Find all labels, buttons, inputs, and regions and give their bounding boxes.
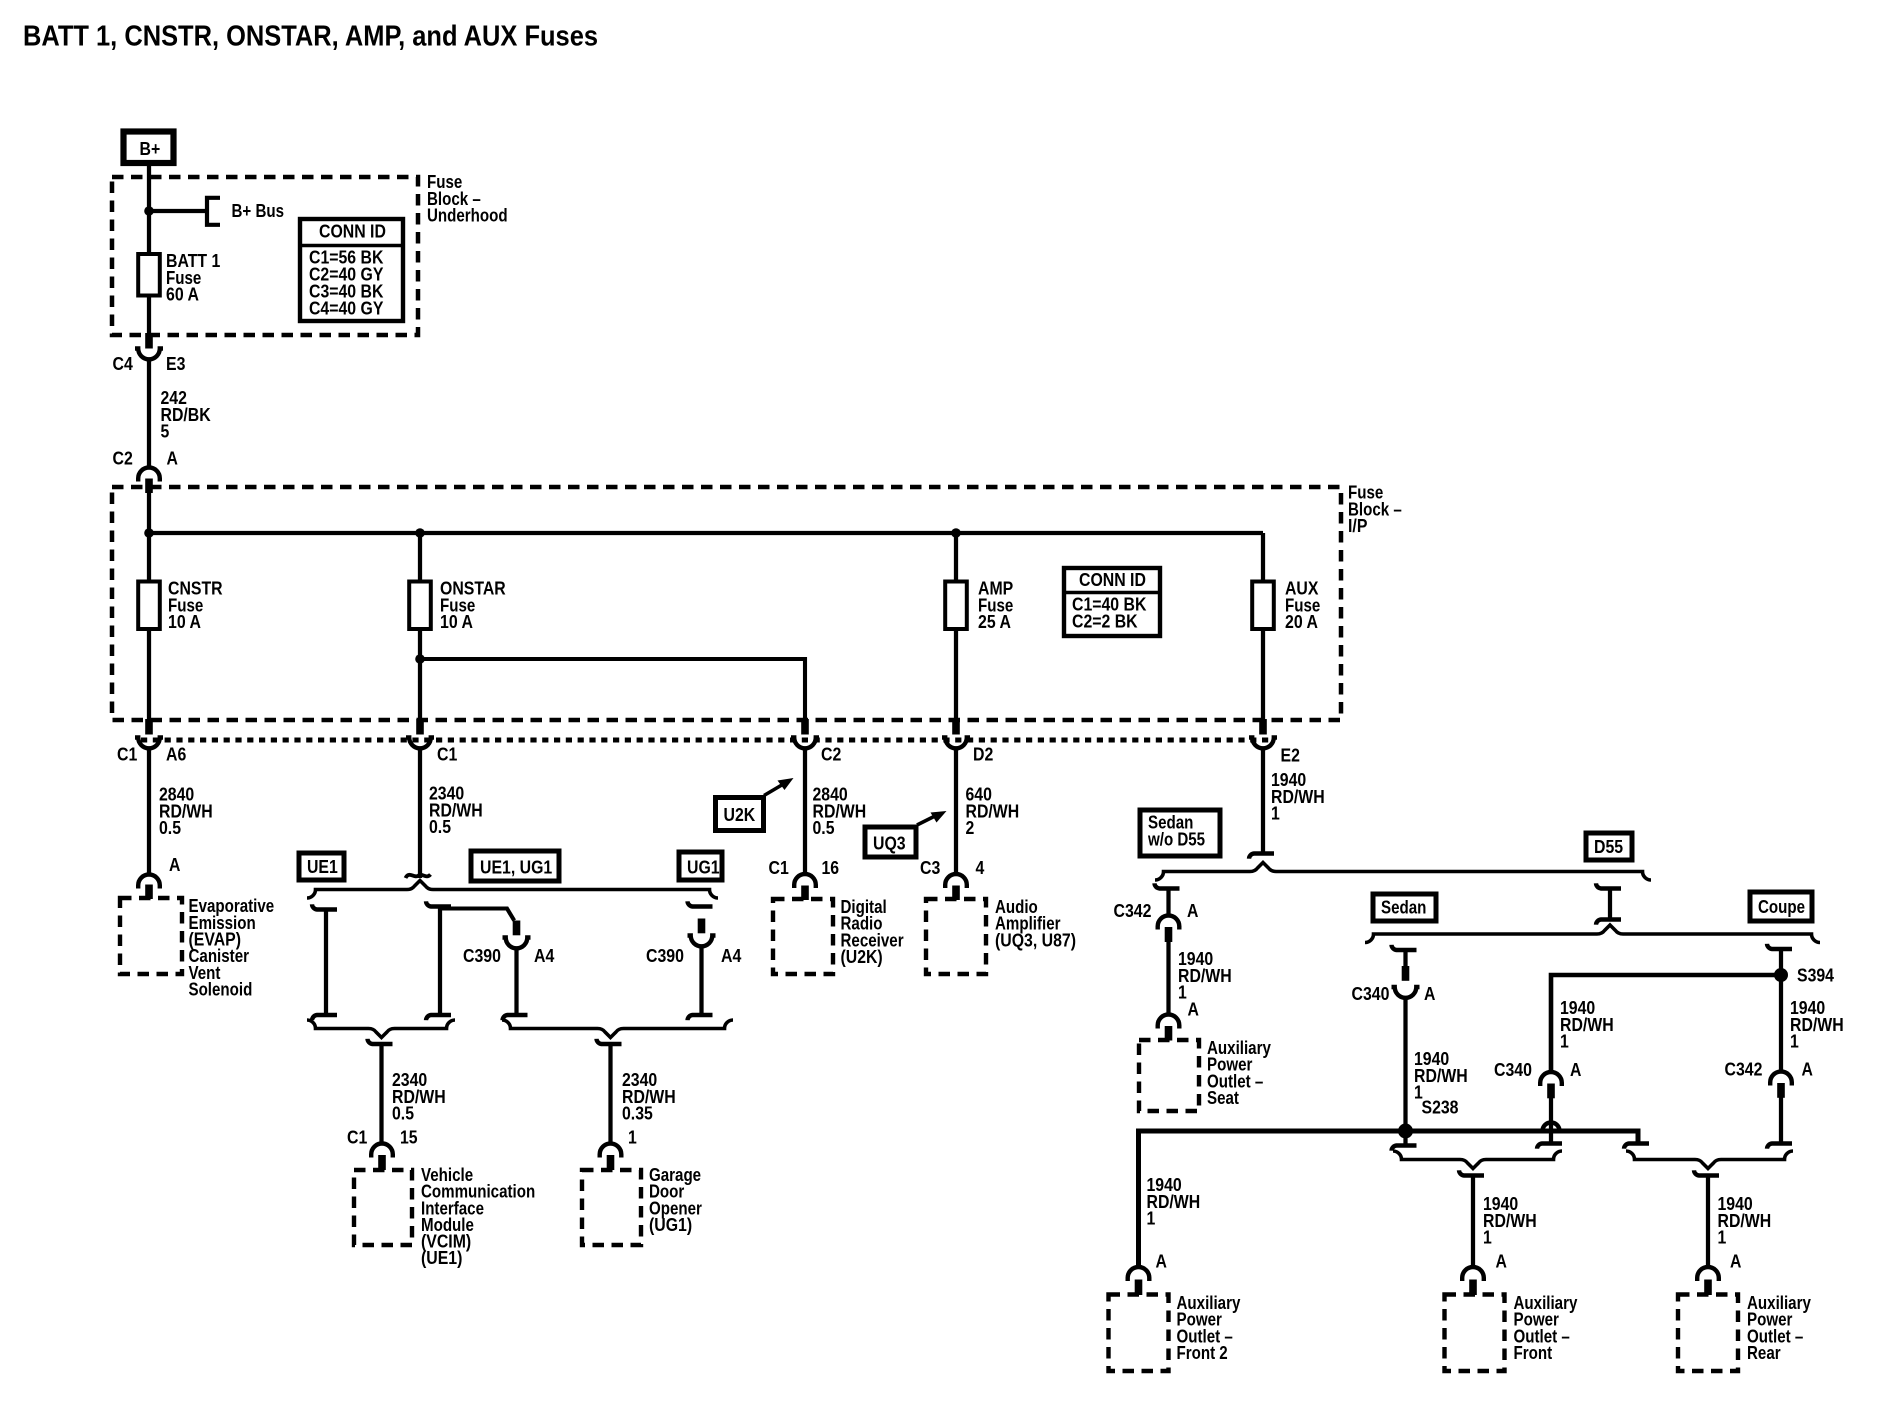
auxiliary power outlet - front 2 (dashed box): [1109, 1295, 1169, 1372]
svg-text:25 A: 25 A: [978, 612, 1011, 632]
wire C340 across S238 bus: [1549, 1098, 1553, 1144]
svg-text:A: A: [1424, 984, 1435, 1004]
fuse BATT 1 60 A: [138, 254, 160, 296]
svg-text:16: 16: [822, 858, 840, 878]
option brace UE1/UG1 split: [307, 881, 718, 899]
label box UG1: [679, 852, 722, 880]
bus wire in I/P block: [149, 531, 1263, 535]
label box U2K with arrow: [716, 798, 764, 831]
svg-text:CONN ID: CONN ID: [1079, 570, 1146, 590]
node S394: [1774, 968, 1788, 982]
wire 640 RD/WH 2 to amplifier: [954, 748, 958, 874]
node bus-AMP: [951, 528, 961, 538]
svg-text:U2K: U2K: [724, 805, 756, 825]
auxiliary power outlet - front (dashed box): [1445, 1295, 1505, 1372]
wire 1940 RD/WH 1 from AUX exit: [1261, 748, 1265, 854]
svg-text:C390: C390: [463, 946, 501, 966]
connector C340 A (sedan): [1402, 966, 1410, 981]
wire ONSTAR fuse to exit C1: [418, 629, 422, 721]
svg-text:C1: C1: [347, 1128, 367, 1148]
B+ battery terminal: [124, 132, 174, 164]
svg-text:C1: C1: [117, 745, 137, 765]
svg-text:UG1: UG1: [687, 858, 720, 878]
svg-text:E2: E2: [1281, 746, 1300, 766]
wire 1940 RD/WH 1 to seat outlet: [1166, 942, 1170, 1015]
terminal bus end: [1624, 1144, 1649, 1149]
svg-text:Coupe: Coupe: [1758, 897, 1805, 917]
wire 2340 RD/WH 0.35 to GDO: [597, 1039, 622, 1044]
svg-text:60 A: 60 A: [166, 285, 199, 305]
option drop sedan: [1392, 945, 1417, 950]
svg-text:C2: C2: [113, 449, 133, 469]
brace gather to front outlet: [1393, 1151, 1562, 1169]
wire bus to ONSTAR fuse: [418, 533, 422, 582]
label box Sedan w/o D55: [1140, 810, 1220, 856]
svg-text:1: 1: [1483, 1228, 1492, 1248]
label box Coupe: [1750, 892, 1812, 921]
splice tilde at option brace: [406, 875, 431, 879]
option brace sedan w/o D55 vs D55: [1155, 863, 1651, 881]
svg-text:C4=40 GY: C4=40 GY: [309, 298, 383, 318]
label box UE1: [299, 853, 344, 880]
svg-text:20 A: 20 A: [1285, 612, 1318, 632]
node S238: [1398, 1124, 1413, 1139]
wire 2340 RD/WH 0.5 to VCIM: [368, 1039, 393, 1044]
brace gather to rear outlet: [1626, 1151, 1793, 1169]
svg-text:(UE1): (UE1): [421, 1248, 462, 1268]
svg-text:C390: C390: [646, 946, 684, 966]
wire 1940 RD/WH 1 coupe down: [1779, 975, 1783, 1072]
svg-text:A4: A4: [534, 946, 554, 966]
svg-text:C3: C3: [920, 858, 940, 878]
svg-text:Underhood: Underhood: [427, 206, 508, 226]
vehicle communication interface module (dashed box): [354, 1170, 412, 1245]
wire 1940 RD/WH 1 sedan to S238: [1403, 997, 1407, 1131]
connector C390 A4 (UE1,UG1): [513, 921, 521, 936]
node bus-ONSTAR: [415, 528, 425, 538]
svg-text:S394: S394: [1797, 966, 1834, 986]
svg-text:B+: B+: [140, 139, 161, 159]
svg-text:A: A: [1570, 1060, 1581, 1080]
svg-text:0.5: 0.5: [429, 817, 451, 837]
option drop UE1 direct: [312, 904, 337, 909]
wire 2840 RD/WH 0.5 to EVAP: [147, 748, 151, 875]
svg-text:C340: C340: [1494, 1060, 1532, 1080]
svg-text:15: 15: [400, 1128, 418, 1148]
svg-text:C340: C340: [1352, 984, 1390, 1004]
wire 242 RD/BK 5: [147, 359, 151, 468]
svg-text:A: A: [1802, 1060, 1813, 1080]
label box D55: [1586, 833, 1632, 860]
wire CNSTR fuse to exit C1: [147, 629, 151, 721]
svg-text:1: 1: [1271, 804, 1280, 824]
audio amplifier (dashed box): [926, 899, 986, 974]
svg-text:Rear: Rear: [1747, 1343, 1781, 1363]
svg-text:Seat: Seat: [1207, 1088, 1239, 1108]
fuse ONSTAR 10 A: [409, 582, 431, 630]
S238 bus wire: [1139, 1131, 1639, 1268]
svg-text:Sedan: Sedan: [1381, 898, 1426, 918]
svg-text:1: 1: [1147, 1209, 1156, 1229]
wire BATT1 fuse to C4: [147, 296, 151, 338]
option drop UE1+UG1: [426, 901, 451, 906]
svg-text:0.5: 0.5: [392, 1104, 414, 1124]
svg-text:A6: A6: [166, 745, 186, 765]
terminal coupe crossover: [1537, 1144, 1562, 1149]
svg-text:1: 1: [1790, 1032, 1799, 1052]
wire into bus: [147, 487, 151, 582]
svg-text:A: A: [1496, 1252, 1507, 1272]
svg-text:C342: C342: [1114, 901, 1152, 921]
node B+ bus junction: [144, 206, 154, 216]
svg-text:5: 5: [161, 422, 170, 442]
svg-text:0.5: 0.5: [159, 818, 181, 838]
svg-text:C2=2 BK: C2=2 BK: [1072, 612, 1138, 632]
wire C342 to rear brace: [1779, 1098, 1783, 1144]
label box UE1, UG1: [471, 851, 559, 881]
exit connector C1/A6: [145, 719, 153, 735]
svg-text:BATT 1, CNSTR, ONSTAR, AMP, an: BATT 1, CNSTR, ONSTAR, AMP, and AUX Fuse…: [23, 21, 598, 53]
svg-text:C1: C1: [437, 745, 457, 765]
svg-text:CONN ID: CONN ID: [319, 222, 386, 242]
terminal rear drop: [1767, 1144, 1792, 1149]
svg-text:(UQ3, U87): (UQ3, U87): [995, 930, 1076, 950]
CONN ID table I/P: [1064, 568, 1160, 636]
wire jog ONSTAR to exit C2: [420, 659, 805, 721]
connector C4/E3 pin: [145, 333, 153, 349]
CONN ID table underhood: [300, 219, 403, 321]
auxiliary power outlet - seat (dashed box): [1139, 1040, 1199, 1111]
svg-text:10 A: 10 A: [168, 612, 201, 632]
digital radio receiver (dashed box): [773, 899, 833, 974]
wire to B+ bus: [149, 209, 206, 213]
svg-text:2: 2: [966, 818, 975, 838]
option drop sedan w/o D55: [1155, 883, 1180, 888]
connector row dotted line: [141, 738, 1274, 743]
svg-text:D2: D2: [973, 745, 993, 765]
wire 1940 RD/WH 1 to front outlet: [1459, 1170, 1484, 1175]
label box UQ3 with arrow: [865, 827, 916, 857]
node ONSTAR jog: [415, 654, 425, 664]
exit connector D2: [952, 719, 960, 735]
svg-text:UE1: UE1: [307, 857, 338, 877]
svg-text:C1: C1: [769, 858, 789, 878]
svg-text:B+ Bus: B+ Bus: [232, 201, 285, 221]
wire S394 to C340 branch: [1551, 975, 1781, 1072]
wire jog to C390: [440, 909, 514, 921]
auxiliary power outlet - rear (dashed box): [1678, 1295, 1738, 1372]
wire 2840 RD/WH 0.5 to radio: [803, 748, 807, 874]
svg-text:0.35: 0.35: [622, 1104, 653, 1124]
exit connector E2: [1259, 719, 1267, 735]
svg-text:A: A: [1156, 1252, 1167, 1272]
svg-text:10 A: 10 A: [440, 612, 473, 632]
svg-text:C342: C342: [1725, 1060, 1763, 1080]
svg-text:UQ3: UQ3: [873, 834, 906, 854]
svg-text:w/o D55: w/o D55: [1147, 830, 1205, 850]
svg-text:1: 1: [628, 1128, 637, 1148]
wire bus to AMP fuse: [954, 533, 958, 582]
svg-text:4: 4: [976, 858, 985, 878]
exit connector C1 (ONSTAR): [416, 719, 424, 735]
svg-text:Front: Front: [1514, 1343, 1553, 1363]
brace gather to garage door opener: [502, 1020, 733, 1038]
svg-text:A: A: [169, 855, 180, 875]
svg-text:A: A: [1730, 1252, 1741, 1272]
svg-text:(U2K): (U2K): [841, 947, 883, 967]
svg-text:A: A: [1187, 901, 1198, 921]
svg-text:Solenoid: Solenoid: [189, 980, 253, 1000]
EVAP canister vent solenoid (dashed box): [120, 898, 182, 974]
wire 1940 RD/WH 1 to rear outlet: [1694, 1170, 1719, 1175]
fuse block I/P (dashed box): [112, 487, 1341, 720]
fuse block underhood (dashed box): [112, 177, 418, 335]
svg-text:C4: C4: [113, 354, 133, 374]
node bus-CNSTR: [144, 528, 154, 538]
wire AMP fuse to exit D2: [954, 629, 958, 721]
svg-text:(UG1): (UG1): [649, 1215, 692, 1235]
option drop D55: [1596, 883, 1621, 888]
svg-text:C2: C2: [821, 745, 841, 765]
fuse AUX 20 A: [1252, 582, 1274, 630]
svg-text:S238: S238: [1422, 1098, 1459, 1118]
svg-text:E3: E3: [166, 354, 185, 374]
option brace sedan vs coupe: [1365, 925, 1820, 943]
option drop coupe: [1767, 944, 1792, 949]
wire B+ to BATT 1 fuse: [147, 166, 151, 255]
option drop UG1: [688, 901, 713, 906]
wire 2340 RD/WH 0.5 from ONSTAR exit: [418, 748, 422, 878]
fuse AMP 25 A: [945, 582, 967, 630]
exit connector C2: [801, 719, 809, 735]
svg-text:Front 2: Front 2: [1177, 1343, 1228, 1363]
B+ bus terminal: [207, 198, 220, 225]
label box Sedan: [1373, 894, 1436, 921]
svg-text:A4: A4: [721, 946, 741, 966]
svg-text:A: A: [167, 449, 178, 469]
wire bus to AUX fuse: [1261, 533, 1265, 582]
terminal below S238: [1403, 1131, 1407, 1146]
fuse CNSTR 10 A: [138, 582, 160, 630]
svg-text:D55: D55: [1594, 837, 1623, 857]
crossover hop at bus: [1543, 1123, 1560, 1132]
svg-text:I/P: I/P: [1348, 516, 1367, 536]
connector C390 A4 (UG1): [688, 936, 716, 947]
svg-text:1: 1: [1178, 983, 1187, 1003]
svg-text:UE1, UG1: UE1, UG1: [480, 858, 552, 878]
svg-text:1: 1: [1560, 1032, 1569, 1052]
svg-text:0.5: 0.5: [813, 818, 835, 838]
svg-text:1: 1: [1718, 1228, 1727, 1248]
brace gather to VCIM: [307, 1020, 455, 1038]
garage door opener (dashed box): [582, 1170, 641, 1245]
wire AUX fuse to exit E2: [1261, 629, 1265, 721]
wire C390 to GDO brace: [514, 948, 518, 1016]
connector C4/E3 cup: [135, 349, 163, 360]
svg-text:A: A: [1188, 1000, 1199, 1020]
